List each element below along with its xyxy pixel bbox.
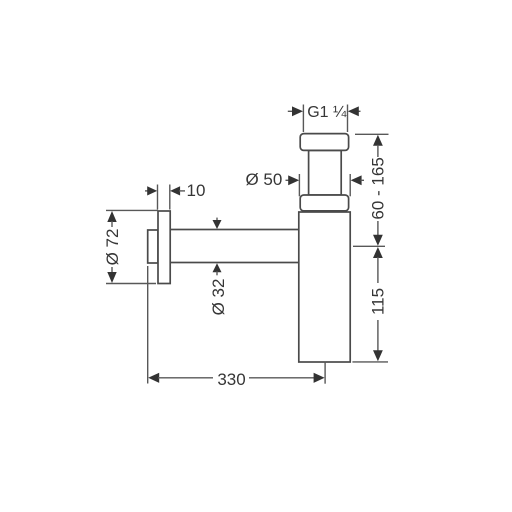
dimension 10 left extension line xyxy=(157,185,159,210)
horizontal waste pipe xyxy=(170,230,299,263)
dimension 330 right arrow xyxy=(249,373,325,383)
svg-text:330: 330 xyxy=(217,370,245,389)
dimension D32 upper arrow xyxy=(213,218,222,229)
riser pipe xyxy=(309,150,342,195)
dimension D50 right leader arrow xyxy=(351,175,364,185)
dimension 60-165 lower arrow xyxy=(373,221,383,246)
dimension 115 lower arrow xyxy=(373,320,383,361)
svg-text:Ø 32: Ø 32 xyxy=(209,279,228,316)
lower slip nut xyxy=(300,195,348,211)
wall sleeve xyxy=(148,230,158,263)
dimension 10 right extension line xyxy=(169,185,171,210)
label diameter 50 xyxy=(245,170,282,189)
dimension 10 right arrow xyxy=(170,186,185,195)
dimension D32 lower arrow xyxy=(213,263,222,275)
label diameter 32 xyxy=(209,279,228,316)
label 330 xyxy=(217,370,245,389)
dimension 330 right extension line xyxy=(324,362,326,384)
label 115 xyxy=(369,288,388,315)
dimension 60-165 upper arrow xyxy=(373,135,383,157)
svg-text:Ø 72: Ø 72 xyxy=(103,229,122,266)
wall flange xyxy=(158,211,170,284)
dimension D72 lower arrow xyxy=(107,267,116,283)
top union nut xyxy=(300,134,348,151)
dimension D72 bottom extension line xyxy=(106,283,156,285)
dimension 330 left extension line xyxy=(147,266,149,384)
dimension 330 left arrow xyxy=(148,373,213,383)
label 60 - 165 xyxy=(369,157,388,219)
dimension G1 1/4 right arrow xyxy=(348,106,361,116)
dimension 115 upper arrow xyxy=(373,247,383,283)
dimension D50 left extension line xyxy=(298,174,300,196)
svg-text:115: 115 xyxy=(369,288,388,315)
dimension G1 1/4 extension line left xyxy=(302,105,304,133)
svg-text:60 - 165: 60 - 165 xyxy=(369,157,388,219)
dimension G1 1/4 left arrow xyxy=(288,106,303,116)
label 10 xyxy=(187,181,206,200)
dimension D50 left leader arrow xyxy=(286,175,300,185)
dimension G1 1/4 extension line right xyxy=(347,105,349,133)
dimension D72 top extension line xyxy=(106,209,158,211)
label diameter 72 xyxy=(103,229,122,266)
dimension 115 bottom extension line xyxy=(352,361,388,363)
dimension D50 right extension line xyxy=(349,174,351,196)
svg-text:10: 10 xyxy=(187,181,206,200)
svg-text:Ø 50: Ø 50 xyxy=(245,170,282,189)
label G1 1/4 xyxy=(307,104,347,121)
trap body xyxy=(299,212,350,362)
shared extension line at pipe axis xyxy=(353,245,385,247)
dimension 60-165 top extension line xyxy=(355,133,389,135)
dimension 10 left arrow xyxy=(145,186,157,195)
svg-text:G1 ¼: G1 ¼ xyxy=(307,104,347,121)
dimension D72 upper arrow xyxy=(107,211,116,227)
